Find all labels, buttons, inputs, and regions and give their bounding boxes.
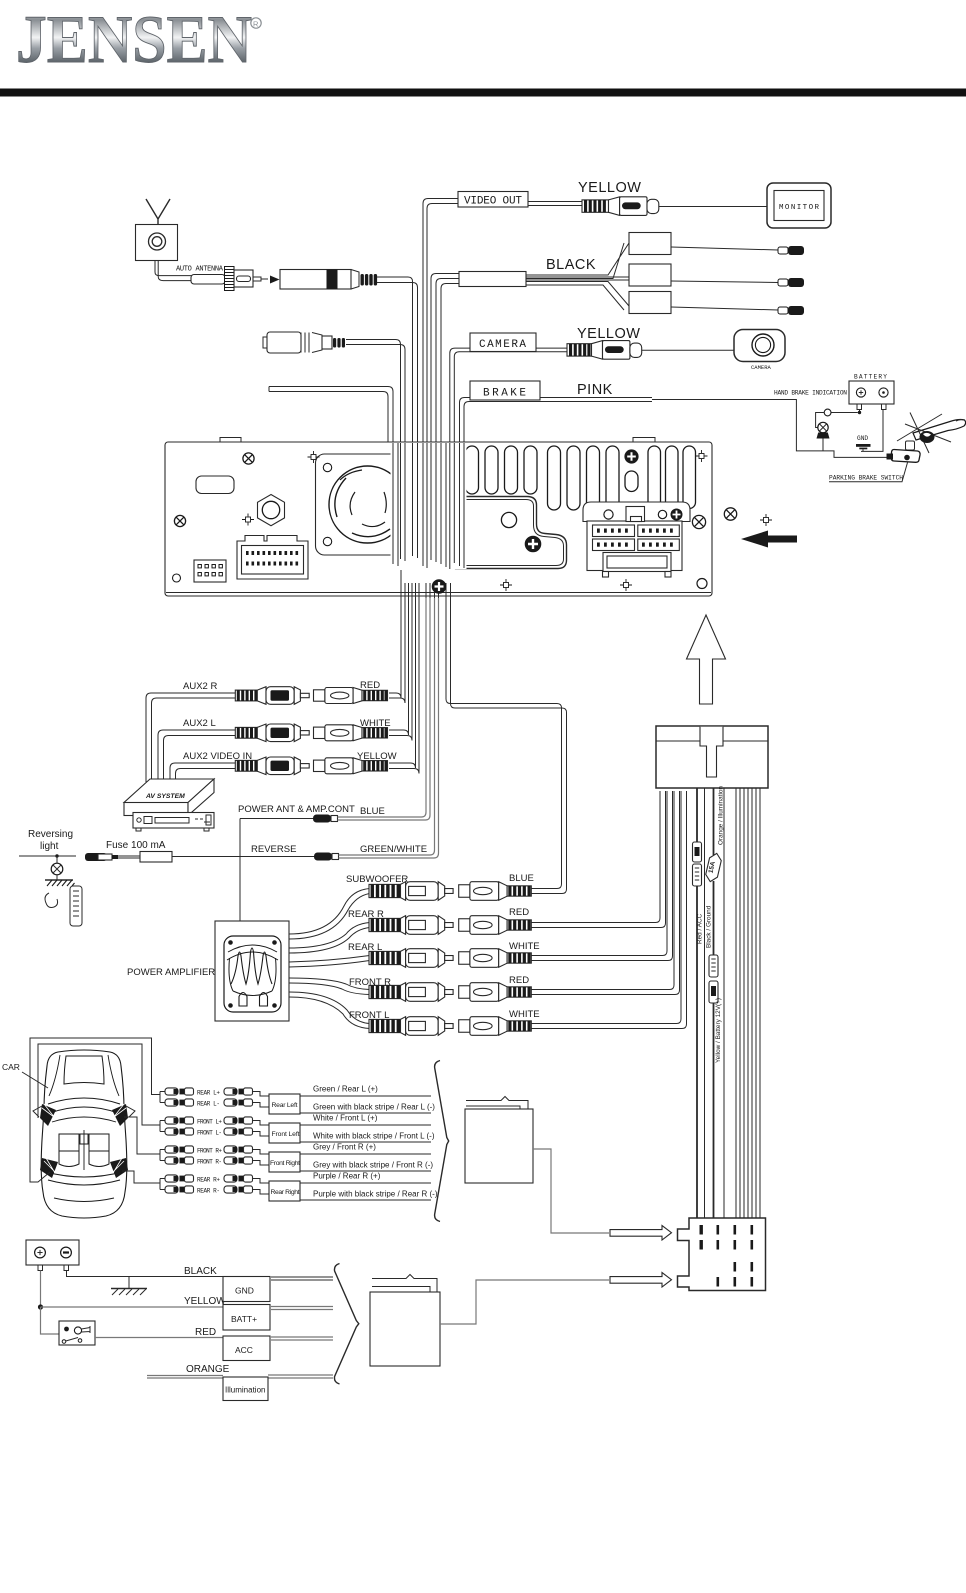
svg-text:Purple / Rear R (+): Purple / Rear R (+) — [313, 1172, 381, 1181]
down to amplifier — [239, 819, 241, 922]
svg-text:AV SYSTEM: AV SYSTEM — [145, 793, 185, 800]
svg-text:Rear Right: Rear Right — [271, 1189, 300, 1196]
speakers — [40, 1104, 128, 1178]
screws outside right of unit + arrow — [724, 508, 736, 520]
svg-text:POWER AMPLIFIER: POWER AMPLIFIER — [127, 967, 215, 978]
speaker harness group Rear Right — [160, 1172, 438, 1202]
svg-text:Grey / Front R (+): Grey / Front R (+) — [313, 1143, 376, 1152]
battery plus down to gnd — [861, 410, 883, 452]
svg-text:HAND BRAKE INDICATION: HAND BRAKE INDICATION — [774, 390, 847, 397]
alignment marker — [696, 450, 708, 462]
svg-text:Black / Ground: Black / Ground — [706, 905, 713, 948]
wire to camera — [642, 349, 734, 351]
screw — [174, 453, 254, 527]
svg-text:Grey with black stripe / Front: Grey with black stripe / Front R (-) — [313, 1161, 433, 1170]
wires from female RCAs up to ISO connector — [531, 791, 687, 1029]
svg-text:RED: RED — [509, 975, 529, 986]
speaker harness group Front Left — [160, 1114, 435, 1144]
svg-text:Orange / Illumination: Orange / Illumination — [718, 786, 725, 845]
wire REAR L female to ISO harness — [531, 791, 667, 956]
wire from label to bundle — [423, 199, 458, 443]
FRONT R RCA connector pair — [369, 983, 453, 1002]
bulb — [818, 422, 828, 432]
svg-text:CAR: CAR — [2, 1062, 20, 1072]
svg-text:Rear Left: Rear Left — [272, 1102, 298, 1109]
stepped plate — [456, 497, 567, 569]
wire AUX2 VIDEO IN female to head unit — [389, 598, 416, 768]
junction sleeve — [459, 272, 526, 287]
wire rear-right speaker to Rear Right row — [122, 1171, 160, 1183]
wire into bundle — [346, 340, 401, 443]
svg-text:light: light — [40, 841, 59, 852]
inline connector on Red/ACC — [693, 842, 702, 886]
JENSEN logo — [16, 1, 261, 77]
hand brake lever sketch — [913, 420, 966, 441]
wire to plug notch — [533, 1149, 609, 1233]
chassis — [165, 442, 712, 596]
REAR L RCA connector pair — [369, 949, 453, 968]
box with switch top — [466, 1097, 528, 1110]
svg-text:CAMERA: CAMERA — [479, 339, 526, 351]
svg-text:RED: RED — [509, 907, 529, 918]
dvd front panel — [133, 813, 214, 829]
svg-text:FRONT L+: FRONT L+ — [197, 1119, 222, 1126]
svg-text:Front Right: Front Right — [270, 1160, 300, 1167]
antenna mast arrow — [146, 199, 170, 225]
battery box — [849, 381, 894, 404]
wire label box to RCA — [528, 202, 582, 206]
svg-text:REAR L-: REAR L- — [197, 1101, 220, 1108]
wire FRONT L female to ISO harness — [531, 791, 681, 1024]
svg-text:POWER ANT & AMP.CONT: POWER ANT & AMP.CONT — [238, 804, 355, 815]
svg-text:YELLOW: YELLOW — [578, 180, 641, 196]
SUBWOOFER RCA connector pair — [369, 882, 453, 901]
svg-text:PARKING BRAKE SWITCH: PARKING BRAKE SWITCH — [829, 475, 903, 482]
REAR R RCA connector pair — [369, 916, 453, 935]
wire AUX2 R female to head unit — [389, 583, 401, 698]
wire from antenna box — [155, 261, 192, 276]
svg-text:Green / Rear L (+): Green / Rear L (+) — [313, 1085, 378, 1094]
three connector housings — [629, 233, 671, 255]
svg-text:Red / ACC: Red / ACC — [697, 913, 704, 944]
bundle of wires through head unit — [391, 443, 798, 598]
BRAKE label box — [470, 381, 540, 400]
screws right — [692, 515, 705, 528]
8-pin connector — [194, 560, 226, 582]
svg-text:R: R — [253, 20, 259, 29]
wire subwoofer loop from head unit to BLUE female — [446, 598, 562, 889]
key switch — [41, 1307, 60, 1334]
cooling fan — [316, 454, 421, 555]
antenna jack hex nut — [258, 495, 285, 526]
MONITOR box — [767, 183, 831, 228]
AUX2 L RCA connector pair — [235, 724, 309, 742]
screw dark on plate — [525, 536, 541, 552]
fan out wires to three plugs — [526, 243, 629, 279]
svg-text:ACC: ACC — [235, 1345, 253, 1355]
svg-text:Purple with black stripe / Rea: Purple with black stripe / Rear R (-) — [313, 1190, 438, 1199]
AUX2 VIDEO IN RCA connector pair — [235, 757, 309, 775]
svg-text:VIDEO OUT: VIDEO OUT — [464, 196, 522, 208]
svg-text:Green with black stripe / Rear: Green with black stripe / Rear L (-) — [313, 1103, 435, 1112]
vent slots — [466, 446, 696, 510]
svg-text:REAR R+: REAR R+ — [197, 1177, 220, 1184]
screw over bundle — [432, 580, 446, 594]
wire AV system to AUX2 VIDEO IN male — [170, 763, 235, 782]
svg-text:REAR L+: REAR L+ — [197, 1090, 220, 1097]
svg-text:AUX2 L: AUX2 L — [183, 718, 216, 729]
svg-text:ORANGE: ORANGE — [186, 1364, 230, 1375]
wires from junction to bundle — [431, 274, 459, 443]
car body — [41, 1050, 127, 1218]
RCA male ribbed — [567, 344, 592, 356]
antenna box — [136, 225, 178, 261]
chassis ground — [128, 1277, 130, 1289]
VIDEO OUT label box — [458, 192, 528, 208]
svg-text:REVERSE: REVERSE — [251, 844, 296, 855]
svg-text:GND: GND — [857, 435, 868, 442]
brake wire from bundle — [460, 398, 653, 443]
insert arrows — [610, 1226, 672, 1241]
label boxes — [223, 1277, 270, 1302]
RCA male ribbed — [582, 200, 609, 212]
svg-text:WHITE: WHITE — [509, 1009, 540, 1020]
svg-text:GND: GND — [235, 1286, 254, 1296]
windshield — [48, 1098, 120, 1113]
amplifier art — [224, 936, 281, 1012]
alignment marker — [242, 514, 254, 526]
insert arrow (left) — [741, 531, 797, 548]
svg-text:BRAKE: BRAKE — [483, 388, 526, 400]
AUX2 R RCA connector pair — [235, 687, 309, 705]
ISO socket on unit — [583, 502, 690, 577]
svg-text:White / Front L (+): White / Front L (+) — [313, 1114, 378, 1123]
alignment markers bottom — [500, 579, 632, 591]
cabin / seats — [59, 1134, 109, 1167]
svg-text:Illumination: Illumination — [225, 1386, 265, 1395]
speaker harness group Rear Left — [160, 1085, 435, 1115]
battery terminals — [857, 404, 862, 410]
15A fuse — [704, 852, 722, 883]
speaker harness group Front Right — [160, 1143, 433, 1173]
arrow tip — [270, 276, 280, 284]
fuse holder — [85, 853, 107, 861]
wire FRONT R female to ISO harness — [531, 791, 674, 990]
rear deck — [46, 1172, 122, 1185]
wire front-right speaker to Front Right row — [124, 1117, 160, 1154]
svg-text:Front Left: Front Left — [272, 1131, 300, 1138]
svg-text:FRONT L-: FRONT L- — [197, 1130, 222, 1137]
svg-text:JENSEN: JENSEN — [16, 1, 252, 77]
wire REAR R female to ISO harness — [531, 791, 660, 923]
wires exiting below — [401, 570, 451, 598]
svg-text:RED: RED — [360, 680, 380, 691]
wire rear-left speaker to Rear Left row — [30, 1038, 160, 1183]
FRONT L RCA connector pair — [369, 1017, 453, 1036]
svg-text:FRONT R-: FRONT R- — [197, 1159, 222, 1166]
subwoofer loop wire from head unit — [446, 598, 567, 894]
wire from adapter to head unit — [377, 277, 413, 442]
wire to hand brake circuit — [652, 400, 891, 458]
pin tips — [778, 246, 804, 315]
screw dark — [625, 450, 638, 463]
svg-text:Fuse 100 mA: Fuse 100 mA — [106, 840, 166, 851]
spare parts art below reversing light — [45, 893, 58, 908]
inline connectors on Black/Ground — [709, 955, 718, 1003]
bullet connectors REAR L — [165, 1088, 194, 1095]
parking brake switch — [906, 441, 915, 450]
bullet connectors FRONT R — [165, 1146, 194, 1153]
svg-text:YELLOW: YELLOW — [577, 326, 640, 342]
svg-text:BLUE: BLUE — [360, 806, 385, 817]
wire front-left speaker to Front Left row — [38, 1044, 160, 1125]
20-pin connector — [237, 536, 308, 580]
cables from amp to male RCAs — [289, 889, 370, 1029]
svg-text:AUTO ANTENNA: AUTO ANTENNA — [176, 266, 224, 274]
hood — [64, 1056, 104, 1084]
camera unit — [734, 330, 785, 362]
svg-text:BATT+: BATT+ — [231, 1314, 257, 1324]
blank label plate — [196, 476, 234, 494]
leads to pin tips — [671, 247, 778, 310]
battery block — [26, 1240, 79, 1265]
svg-text:FRONT R+: FRONT R+ — [197, 1148, 222, 1155]
bracket — [435, 1061, 449, 1222]
svg-text:BLACK: BLACK — [546, 257, 596, 273]
top tabs — [220, 438, 655, 443]
wire AV system to AUX2 L male — [158, 730, 235, 782]
svg-text:AUX2 R: AUX2 R — [183, 681, 217, 692]
svg-text:GREEN/WHITE: GREEN/WHITE — [360, 844, 427, 855]
svg-text:SUBWOOFER: SUBWOOFER — [346, 874, 408, 885]
svg-text:PINK: PINK — [577, 382, 613, 398]
svg-text:BLACK: BLACK — [184, 1266, 217, 1277]
svg-text:RED: RED — [195, 1327, 216, 1338]
svg-text:BLUE: BLUE — [509, 873, 534, 884]
auto antenna plug — [191, 275, 225, 285]
mini-din connector cable — [263, 337, 267, 348]
svg-text:Reversing: Reversing — [28, 829, 73, 840]
bullet connectors REAR R — [165, 1175, 194, 1182]
wire — [240, 818, 313, 820]
CAMERA label box — [470, 333, 536, 352]
mirrors — [33, 1106, 135, 1117]
brake stub wire (open end) — [269, 387, 393, 443]
header black bar — [0, 89, 966, 97]
wires below block : audio drop lines handled in rcaup; power lines — [697, 788, 760, 1218]
svg-text:CAMERA: CAMERA — [751, 364, 772, 371]
alignment marker fan corner — [308, 451, 320, 463]
wiring battery minus to bulb — [859, 410, 861, 413]
wire to monitor — [659, 206, 767, 208]
svg-text:WHITE: WHITE — [509, 941, 540, 952]
svg-text:REAR R-: REAR R- — [197, 1188, 220, 1195]
svg-text:YELLOW: YELLOW — [184, 1296, 226, 1307]
wire AUX2 L female to head unit — [389, 598, 409, 735]
RCA female body — [620, 197, 647, 216]
aux2 connector template uses: male ribbed+black center, female with oval — [183, 680, 380, 692]
wire AV system to AUX2 R male — [146, 693, 235, 782]
svg-text:White with black stripe / Fron: White with black stripe / Front L (-) — [313, 1132, 435, 1141]
svg-text:Yellow / Battery 12V(+): Yellow / Battery 12V(+) — [715, 998, 722, 1063]
camera cable from head unit — [450, 348, 567, 442]
adapter barrel — [280, 270, 351, 290]
bullet connectors FRONT L — [165, 1117, 194, 1124]
